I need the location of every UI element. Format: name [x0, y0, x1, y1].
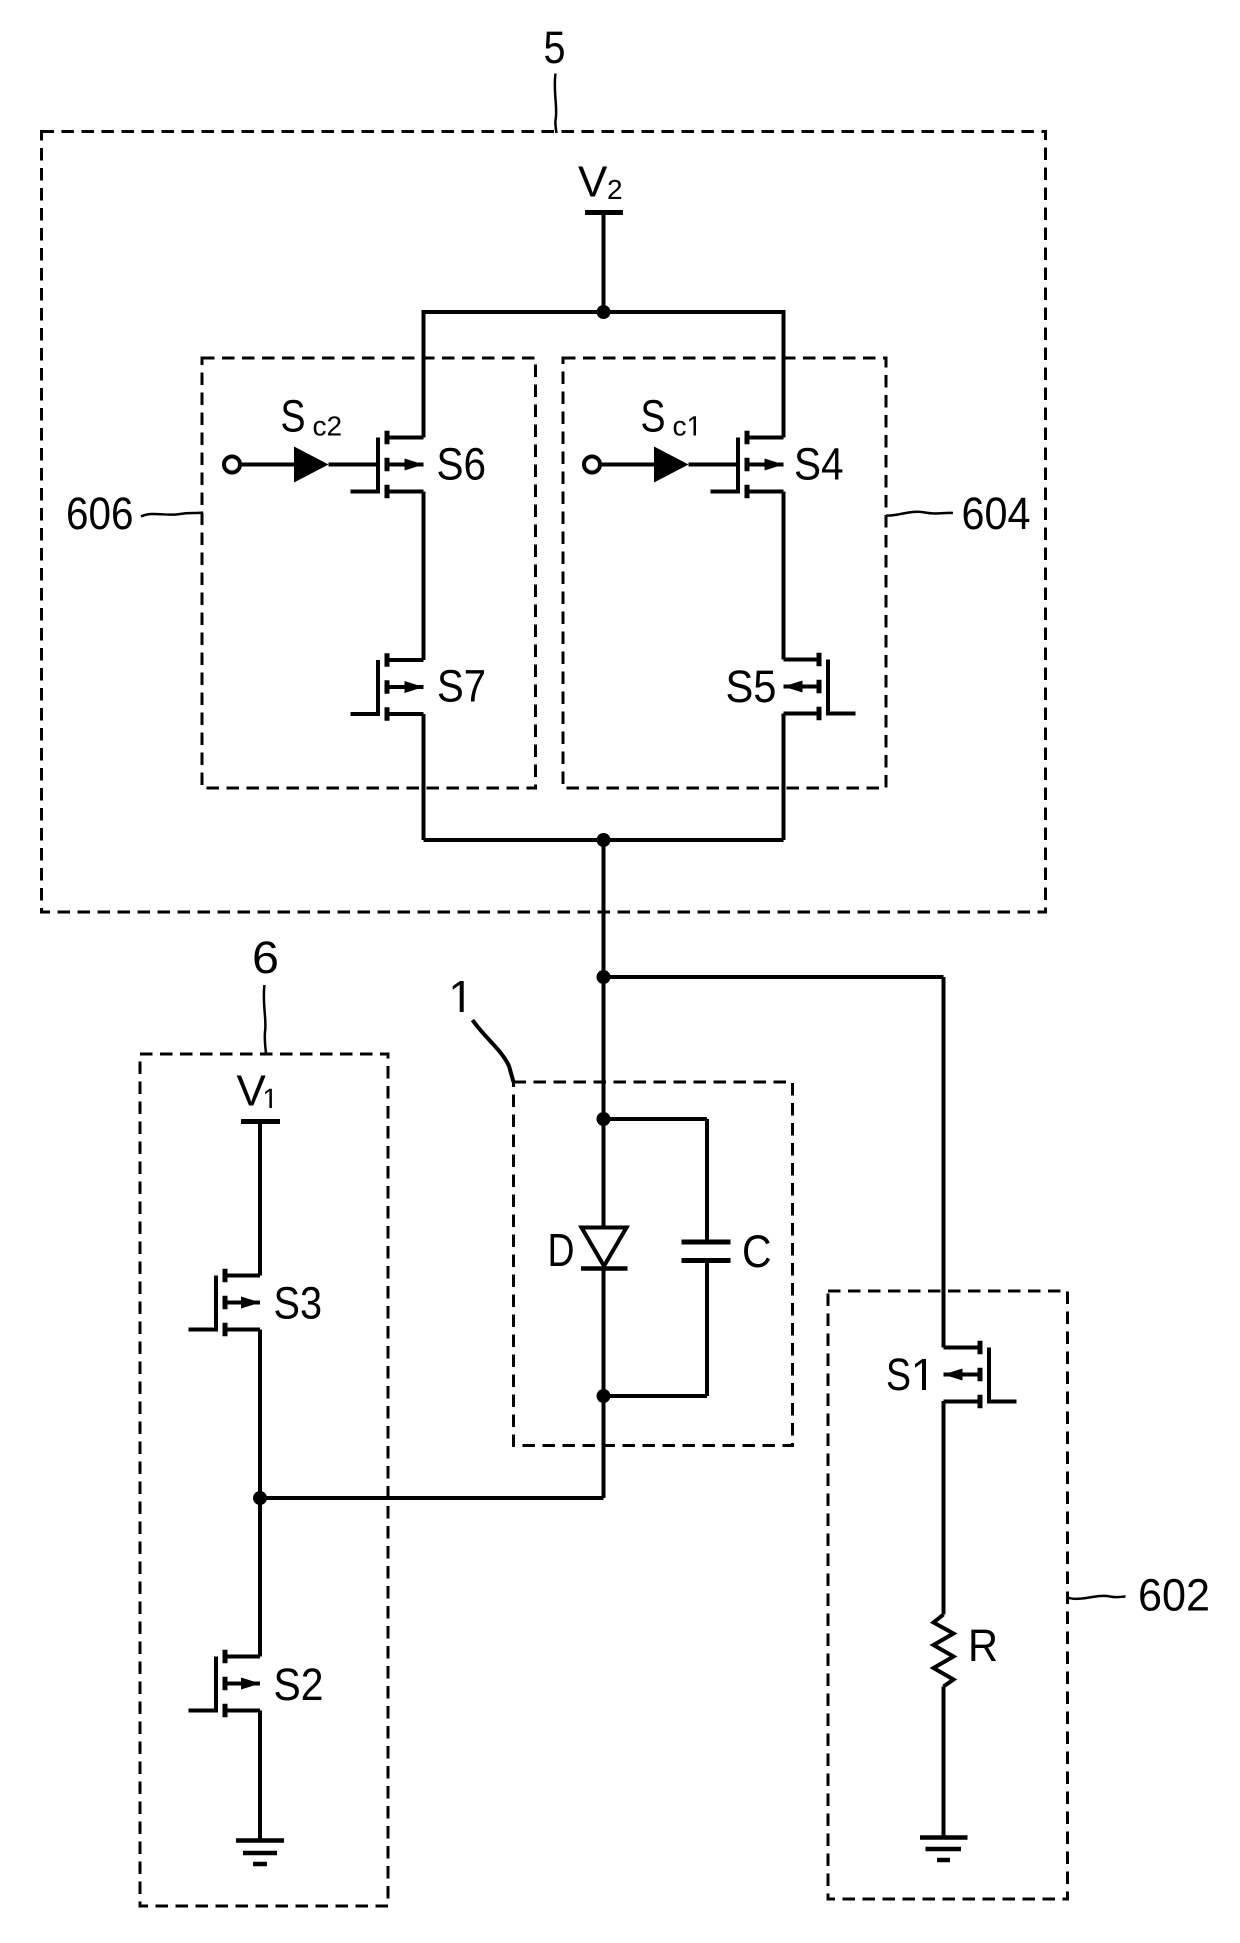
svg-text:602: 602 [1138, 1570, 1210, 1621]
wire Sc2 to buffer [242, 463, 294, 467]
transistor S6 [351, 431, 424, 499]
svg-text:S6: S6 [437, 439, 487, 490]
wire node B to S2 drain [258, 1498, 262, 1657]
leader from 604 to box 604 [886, 512, 953, 516]
label S6 [437, 439, 487, 490]
svg-text:604: 604 [962, 488, 1031, 539]
label S7 [437, 661, 486, 712]
svg-text:S: S [281, 391, 306, 442]
diode D [581, 1228, 628, 1269]
supply V2 bar [585, 210, 623, 215]
label D [548, 1224, 575, 1276]
label S1 [886, 1349, 926, 1400]
wire S3 source to node B [258, 1330, 262, 1499]
transistor S5 [784, 653, 856, 721]
label S3 [274, 1278, 323, 1329]
input terminal Sc2 [224, 457, 240, 473]
svg-text:606: 606 [66, 488, 134, 539]
supply V1 label [237, 1067, 272, 1116]
transistor S2 [189, 1650, 261, 1718]
label S5 [726, 661, 777, 712]
transistor S3 [189, 1269, 261, 1337]
wire V1 lead [258, 1124, 262, 1276]
ground under S2 [236, 1841, 284, 1865]
label 1 [453, 981, 464, 1012]
label Sc2 [281, 391, 343, 442]
wire capacitor bottom lead [705, 1263, 709, 1396]
label R [968, 1620, 998, 1671]
wire S6 source to S7 drain [422, 492, 426, 661]
wire top bus [424, 310, 784, 314]
ground under R [920, 1838, 968, 1861]
dashed box 6 (S3/S2 leg) [140, 1054, 388, 1906]
wire S5 source to bottom bus [782, 714, 786, 841]
svg-text:6: 6 [252, 932, 279, 983]
svg-text:S5: S5 [726, 661, 777, 712]
wire to diode anode [602, 1119, 606, 1228]
buffer amplifier for Sc1 [654, 447, 689, 483]
wire capacitor top lead [705, 1119, 709, 1240]
wire top bus to S4 drain [782, 310, 786, 438]
transistor S7 [351, 653, 424, 721]
wire buffer to S6 gate [329, 463, 379, 467]
node junction bottom bus [597, 833, 611, 847]
wire top bus to S6 drain [422, 310, 426, 438]
node junction bottom of D/C [597, 1389, 611, 1403]
dashed box 606 (S6/S7 leg) [202, 358, 536, 788]
label S2 [274, 1659, 324, 1710]
wire V2 lead [602, 215, 606, 312]
wire buffer to S4 gate [689, 463, 739, 467]
leader from 5 to box 5 [555, 74, 557, 134]
svg-text:S2: S2 [274, 1659, 324, 1710]
label S4 [794, 439, 844, 490]
svg-text:C: C [742, 1226, 772, 1277]
svg-text:R: R [968, 1620, 998, 1671]
buffer amplifier for Sc2 [294, 447, 329, 483]
svg-text:S7: S7 [437, 661, 486, 712]
wire S2 source to ground [258, 1711, 262, 1841]
wire S1 source to resistor [942, 1401, 946, 1615]
leader from 6 to box 6 [264, 985, 266, 1054]
wire D/C bottom down [602, 1396, 606, 1498]
leader from 1 to box 1 [473, 1020, 514, 1082]
svg-text:S: S [886, 1349, 911, 1400]
supply V1 bar [241, 1119, 280, 1124]
svg-text:S4: S4 [794, 439, 844, 490]
input terminal Sc1 [584, 457, 600, 473]
label 602 [1138, 1570, 1210, 1621]
wire S7 source to bottom bus [422, 714, 426, 840]
wire Sc1 to buffer [602, 463, 654, 467]
dashed box 5 (converter block) [42, 132, 1046, 913]
wire top to capacitor [604, 1117, 708, 1121]
node A junction [597, 970, 611, 984]
svg-text:c: c [673, 411, 687, 442]
svg-text:D: D [548, 1224, 575, 1276]
label C [742, 1226, 772, 1277]
wire bottom to capacitor [604, 1394, 708, 1398]
node B junction [253, 1491, 267, 1505]
svg-text:S: S [641, 391, 666, 442]
wire S4 source to S5 drain [782, 492, 786, 660]
node junction V2/top-bus [597, 305, 611, 319]
label 604 [962, 488, 1031, 539]
svg-text:V: V [578, 158, 608, 207]
svg-text:2: 2 [607, 174, 623, 205]
transistor S1 [944, 1341, 1017, 1409]
wire resistor to ground [942, 1687, 946, 1838]
dashed box 1 (D/C cell) [514, 1082, 793, 1446]
svg-text:5: 5 [544, 22, 566, 73]
leader from 602 to box 602 [1068, 1596, 1126, 1599]
wire to node B [260, 1496, 604, 1500]
wire S1 branch drop [942, 977, 946, 1348]
resistor R [934, 1615, 954, 1687]
node junction top of D/C [597, 1112, 611, 1126]
supply V2 label [578, 158, 623, 207]
label 606 [66, 488, 134, 539]
svg-text:V: V [237, 1067, 267, 1116]
leader from 606 to box 606 [141, 513, 203, 517]
transistor S4 [711, 431, 784, 499]
wire bottom bus to node A [602, 840, 606, 1119]
label Sc1 [641, 391, 697, 442]
svg-text:c2: c2 [313, 411, 343, 442]
dashed box 604 (S4/S5 leg) [563, 358, 886, 788]
wire bottom bus [424, 838, 784, 842]
dashed box 602 (S1/R leg) [828, 1291, 1068, 1899]
wire node A to S1 branch [604, 975, 944, 979]
label 5 [544, 22, 566, 73]
label 6 [252, 932, 279, 983]
svg-text:S3: S3 [274, 1278, 323, 1329]
capacitor C [682, 1242, 731, 1261]
wire diode cathode down [602, 1269, 606, 1397]
